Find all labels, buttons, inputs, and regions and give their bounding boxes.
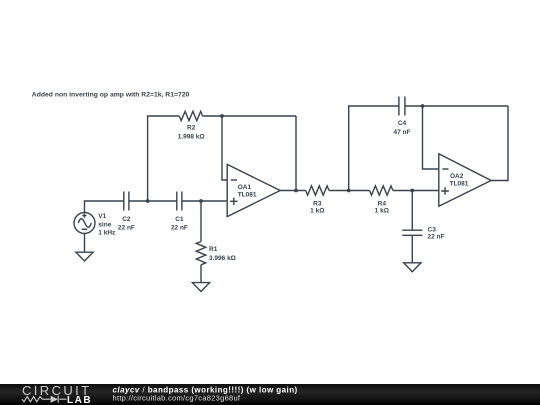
ground R1 (192, 283, 209, 292)
wire: feedback right side to OA2 output (491, 106, 508, 181)
wire: R3 to R4 (329, 190, 370, 192)
node: R2 / OA1 inverting junction (220, 114, 224, 118)
wire: node D down to C3 (411, 191, 413, 231)
capacitor C1 (177, 192, 182, 211)
footer bar (0, 384, 540, 405)
wire: R2 right lead to feedback corner (203, 115, 296, 117)
node: C4 / OA2 inverting junction (421, 104, 425, 108)
resistor R2 (179, 111, 202, 120)
svg-text:1 kHz: 1 kHz (98, 229, 116, 236)
svg-text:V1: V1 (98, 213, 106, 220)
voltage source V1 (74, 213, 95, 234)
svg-text:1.998 kΩ: 1.998 kΩ (178, 134, 205, 141)
resistor R1 (196, 242, 205, 265)
svg-text:LAB: LAB (67, 395, 92, 405)
svg-text:Added non inverting op amp wit: Added non inverting op amp with R2=1k, R… (32, 91, 190, 98)
svg-text:3.996 kΩ: 3.996 kΩ (209, 255, 236, 262)
svg-text:R2: R2 (187, 125, 196, 132)
op-amp OA1 (227, 164, 280, 216)
ground C3 (404, 263, 421, 272)
svg-text:C4: C4 (398, 120, 407, 127)
svg-text:C2: C2 (122, 216, 131, 223)
resistor R3 (306, 186, 329, 195)
wire: C4 right lead to feedback corner (405, 105, 508, 107)
wire: R2 node down to OA1 inverting input (222, 116, 227, 180)
svg-text:47 nF: 47 nF (394, 129, 411, 136)
node C: R3/R4/C4 junction (347, 189, 351, 193)
wire: node B down to R1 (200, 201, 202, 242)
wire: OA1 output to R3 (280, 190, 306, 192)
wire: V1 top to C2 (85, 201, 124, 213)
svg-text:OA1: OA1 (238, 184, 252, 191)
svg-text:http://circuitlab.com/cg7ca823: http://circuitlab.com/cg7ca823g68uf (113, 394, 241, 403)
ground V1 (76, 252, 93, 261)
capacitor C2 (124, 192, 129, 211)
svg-text:TL081: TL081 (238, 192, 257, 199)
svg-text:sine: sine (98, 221, 111, 228)
svg-text:1 kΩ: 1 kΩ (310, 207, 324, 214)
svg-text:OA2: OA2 (450, 173, 464, 180)
wire: V1 bottom to ground (84, 234, 86, 253)
capacitor C4 (399, 97, 405, 116)
capacitor C3 (402, 230, 422, 235)
wire: node C up to C4 left lead (349, 106, 399, 191)
svg-text:TL081: TL081 (450, 181, 469, 188)
svg-text:1 kΩ: 1 kΩ (375, 207, 389, 214)
wire: R4 to OA2 non-inverting input (393, 190, 439, 192)
wire: C1 to OA1 non-inverting input (182, 200, 227, 202)
svg-text:C1: C1 (175, 216, 184, 223)
resistor R4 (370, 186, 393, 195)
op-amp OA2 (439, 154, 491, 206)
junction dots (146, 104, 425, 203)
svg-text:22 nF: 22 nF (428, 234, 445, 241)
wire: feedback down to OA1 output node (295, 116, 297, 191)
node: OA1 output / feedback junction (294, 189, 298, 193)
svg-text:C3: C3 (428, 227, 437, 234)
wire: node A up to R2 left lead (148, 116, 180, 201)
wire: C3 to ground (411, 235, 413, 262)
CircuitLab logo: resistor-diode glyph (22, 396, 67, 403)
node D: R4/C3/OA2+ junction (410, 189, 414, 193)
node A: C2/C1/R2 junction (146, 199, 150, 203)
svg-text:22 nF: 22 nF (171, 224, 188, 231)
svg-text:22 nF: 22 nF (118, 224, 135, 231)
svg-text:R1: R1 (209, 246, 218, 253)
wire: R1 to ground (200, 265, 202, 283)
node B: C1/R1/OA1+ junction (199, 199, 203, 203)
wire: C4 node down to OA2 inverting input (423, 106, 439, 169)
wire: C2 to C1 (129, 200, 177, 202)
